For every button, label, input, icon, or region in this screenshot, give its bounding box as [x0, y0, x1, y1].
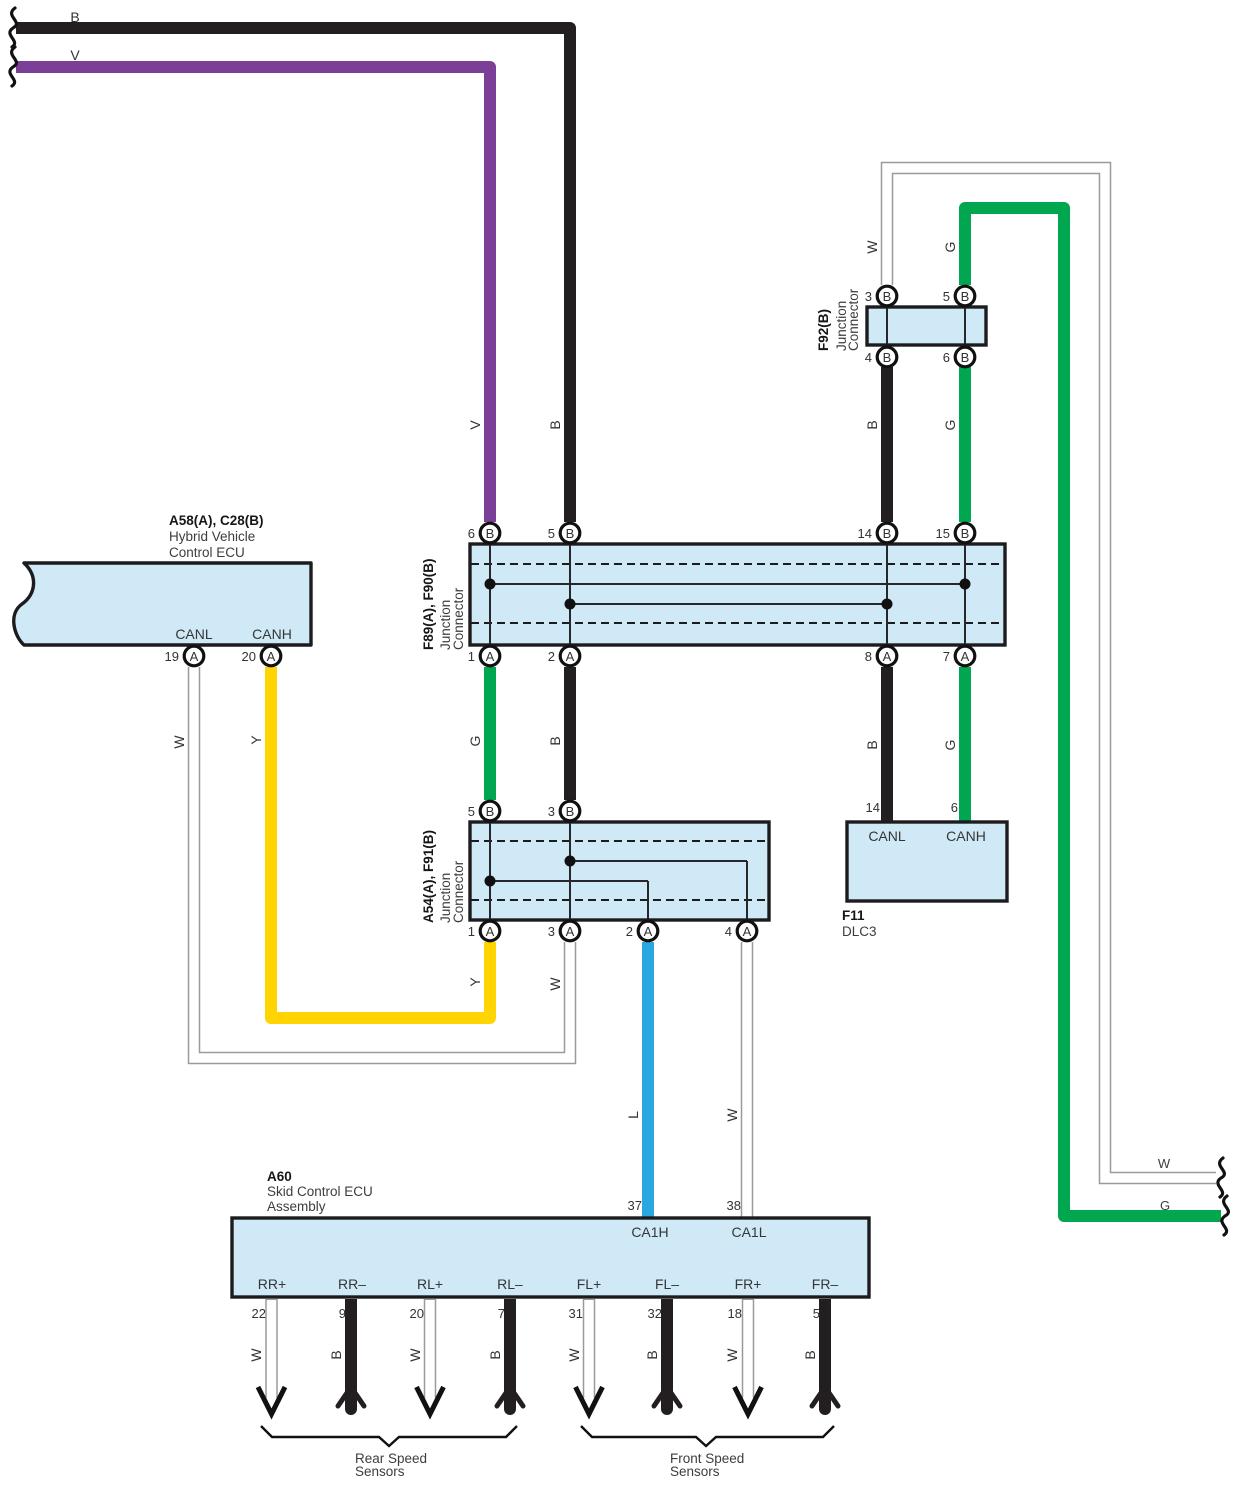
brace front speed sensors — [581, 1426, 834, 1446]
svg-text:5: 5 — [468, 804, 475, 819]
wire G F92.6B to F89.15B — [959, 367, 971, 522]
svg-text:4: 4 — [725, 924, 732, 939]
svg-text:Hybrid Vehicle: Hybrid Vehicle — [169, 529, 255, 544]
break squiggle V wire — [10, 47, 17, 86]
pin 8A F89 — [865, 646, 897, 666]
svg-text:FR+: FR+ — [735, 1276, 762, 1292]
svg-text:B: B — [961, 350, 970, 365]
wire W A58.19 to A54.3A — [194, 666, 570, 1058]
svg-text:7: 7 — [943, 649, 950, 664]
svg-text:A58(A), C28(B): A58(A), C28(B) — [169, 513, 264, 528]
break squiggle B wire — [10, 8, 17, 47]
svg-text:15: 15 — [936, 526, 950, 541]
svg-text:B: B — [70, 9, 79, 25]
svg-text:20: 20 — [410, 1306, 424, 1321]
svg-text:A: A — [566, 649, 575, 664]
svg-text:FL–: FL– — [655, 1276, 679, 1292]
svg-text:Assembly: Assembly — [267, 1199, 326, 1214]
svg-text:6: 6 — [943, 350, 950, 365]
break squiggle G right — [1222, 1196, 1229, 1235]
svg-text:RR–: RR– — [338, 1276, 366, 1292]
svg-text:1: 1 — [468, 924, 475, 939]
svg-text:B: B — [644, 1350, 660, 1359]
svg-text:37: 37 — [628, 1198, 642, 1213]
A54 label — [421, 830, 466, 923]
svg-text:CANH: CANH — [946, 828, 986, 844]
svg-text:A: A — [743, 924, 752, 939]
wire G F89.7A to F11 CANH — [959, 667, 971, 822]
svg-text:A: A — [961, 649, 970, 664]
pin 5B F89 — [548, 523, 580, 543]
pin 3A A54 — [548, 921, 580, 941]
svg-text:RL+: RL+ — [417, 1276, 443, 1292]
connector A58 Hybrid Vehicle Control ECU — [14, 563, 311, 645]
label front speed sensors — [670, 1451, 744, 1479]
svg-text:A54(A), F91(B): A54(A), F91(B) — [421, 830, 436, 923]
svg-text:L: L — [625, 1111, 641, 1119]
svg-text:G: G — [1160, 1198, 1170, 1213]
svg-text:B: B — [883, 289, 892, 304]
sensor wire B pin 32 — [644, 1299, 680, 1415]
svg-text:6: 6 — [951, 800, 958, 815]
svg-text:W: W — [566, 1348, 582, 1362]
svg-text:14: 14 — [858, 526, 872, 541]
svg-text:5: 5 — [813, 1306, 820, 1321]
svg-text:CA1H: CA1H — [631, 1224, 668, 1240]
svg-text:A: A — [566, 924, 575, 939]
wire W from F92.3B around right side — [887, 168, 1217, 1178]
pin 4A A54 — [725, 921, 757, 941]
sensor wire B pin 7 — [487, 1299, 523, 1415]
svg-text:2: 2 — [626, 924, 633, 939]
label rear speed sensors — [355, 1451, 427, 1479]
svg-text:B: B — [864, 740, 880, 749]
F89 label — [421, 558, 466, 650]
svg-text:3: 3 — [548, 804, 555, 819]
pin 1A A54 — [468, 921, 500, 941]
svg-text:B: B — [864, 420, 880, 429]
svg-text:Y: Y — [467, 977, 483, 987]
connector F11 DLC3 — [847, 822, 1007, 901]
svg-text:W: W — [1158, 1156, 1171, 1171]
pin 5B A54 — [468, 801, 500, 821]
pin 1A F89 — [468, 646, 500, 666]
svg-text:V: V — [467, 420, 483, 430]
pin 4B F92 — [865, 347, 897, 367]
F92 label — [816, 288, 861, 351]
svg-text:B: B — [961, 289, 970, 304]
svg-text:Connector: Connector — [846, 288, 861, 351]
svg-text:A: A — [267, 649, 276, 664]
A60 title — [267, 1169, 373, 1214]
svg-text:4: 4 — [865, 350, 872, 365]
svg-text:W: W — [248, 1348, 264, 1362]
svg-text:CANH: CANH — [252, 626, 292, 642]
svg-text:2: 2 — [548, 649, 555, 664]
svg-text:G: G — [942, 740, 958, 751]
svg-text:A: A — [486, 649, 495, 664]
pin 6B F92 — [943, 347, 975, 367]
pin 3B A54 — [548, 801, 580, 821]
svg-text:A: A — [644, 924, 653, 939]
svg-text:22: 22 — [252, 1306, 266, 1321]
wire L A54.2A to A60 CA1H — [642, 942, 654, 1218]
svg-text:W: W — [724, 1348, 740, 1362]
svg-text:Connector: Connector — [451, 860, 466, 923]
sensor wire W pin 22 — [248, 1299, 285, 1414]
svg-text:RR+: RR+ — [258, 1276, 286, 1292]
connector A60 Skid Control ECU Assembly — [232, 1218, 869, 1297]
wire B F89.8A to F11 CANL — [881, 667, 893, 822]
pin 7A F89 — [943, 646, 975, 666]
svg-text:B: B — [486, 526, 495, 541]
svg-text:W: W — [724, 1108, 740, 1122]
svg-text:CANL: CANL — [868, 828, 906, 844]
svg-text:B: B — [547, 736, 563, 745]
svg-text:7: 7 — [498, 1306, 505, 1321]
svg-text:DLC3: DLC3 — [842, 924, 877, 939]
svg-text:F11: F11 — [842, 908, 865, 923]
svg-text:FR–: FR– — [812, 1276, 839, 1292]
sensor wire B pin 5 — [802, 1299, 838, 1415]
wire B F92.4B to F89.14B — [881, 367, 893, 522]
svg-text:B: B — [883, 526, 892, 541]
pin 15B F89 — [936, 523, 975, 543]
svg-text:W: W — [171, 735, 187, 749]
svg-text:A: A — [486, 924, 495, 939]
svg-text:G: G — [942, 420, 958, 431]
svg-text:A60: A60 — [267, 1169, 292, 1184]
svg-text:Skid Control ECU: Skid Control ECU — [267, 1184, 373, 1199]
svg-text:F92(B): F92(B) — [816, 309, 831, 351]
svg-text:8: 8 — [865, 649, 872, 664]
svg-text:20: 20 — [242, 649, 256, 664]
svg-text:B: B — [328, 1350, 344, 1359]
svg-text:CA1L: CA1L — [731, 1224, 766, 1240]
svg-text:F89(A), F90(B): F89(A), F90(B) — [421, 558, 436, 650]
svg-text:Sensors: Sensors — [670, 1464, 720, 1479]
svg-text:G: G — [942, 242, 958, 253]
sensor wire B pin 9 — [328, 1299, 364, 1415]
svg-text:FL+: FL+ — [577, 1276, 602, 1292]
svg-text:Y: Y — [248, 735, 264, 745]
svg-text:A: A — [190, 649, 199, 664]
svg-text:CANL: CANL — [175, 626, 213, 642]
sensor wire W pin 20 — [407, 1299, 444, 1414]
svg-text:Connector: Connector — [451, 587, 466, 650]
svg-text:38: 38 — [727, 1198, 741, 1213]
pin 6B F89 — [468, 523, 500, 543]
svg-text:B: B — [802, 1350, 818, 1359]
svg-text:5: 5 — [943, 289, 950, 304]
brace rear speed sensors — [261, 1426, 517, 1446]
wire B top (black) — [16, 28, 570, 522]
F11 title — [842, 908, 877, 939]
svg-text:B: B — [566, 804, 575, 819]
connector A54(A) F91(B) junction connector — [470, 822, 769, 920]
pin 5B F92 — [943, 286, 975, 306]
connector F92(B) junction connector — [867, 307, 986, 345]
svg-text:5: 5 — [548, 526, 555, 541]
svg-text:3: 3 — [548, 924, 555, 939]
svg-text:W: W — [864, 240, 880, 254]
svg-text:W: W — [407, 1348, 423, 1362]
svg-text:1: 1 — [468, 649, 475, 664]
pin 2A A54 — [626, 921, 658, 941]
wire G from F92.5B around right side — [965, 208, 1221, 1216]
wire G F89.1A to A54.5B — [484, 667, 496, 800]
pin 14B F89 — [858, 523, 897, 543]
sensor wire W pin 18 — [724, 1299, 762, 1414]
pin 3B F92 — [865, 286, 897, 306]
svg-text:B: B — [883, 350, 892, 365]
svg-text:V: V — [70, 47, 80, 63]
A58 title — [169, 513, 264, 560]
svg-text:RL–: RL– — [497, 1276, 523, 1292]
wire W A54.4A to A60 CA1L — [741, 941, 754, 1218]
wire V (violet) — [16, 67, 490, 522]
svg-text:B: B — [547, 420, 563, 429]
svg-text:32: 32 — [648, 1306, 662, 1321]
svg-text:3: 3 — [865, 289, 872, 304]
break squiggle W right — [1218, 1158, 1225, 1197]
svg-text:31: 31 — [569, 1306, 583, 1321]
sensor wire W pin 31 — [566, 1299, 603, 1414]
svg-text:B: B — [487, 1350, 503, 1359]
svg-text:Sensors: Sensors — [355, 1464, 405, 1479]
svg-text:G: G — [467, 736, 483, 747]
pin 2A F89 — [548, 646, 580, 666]
svg-text:Control ECU: Control ECU — [169, 545, 245, 560]
svg-text:18: 18 — [728, 1306, 742, 1321]
svg-text:A: A — [883, 649, 892, 664]
svg-text:9: 9 — [339, 1306, 346, 1321]
svg-text:B: B — [961, 526, 970, 541]
svg-text:B: B — [486, 804, 495, 819]
svg-text:6: 6 — [468, 526, 475, 541]
pin 19A A58 — [165, 646, 204, 666]
wire Y A58.20 to A54.1A — [271, 667, 490, 1018]
svg-text:19: 19 — [165, 649, 179, 664]
pin 20A A58 — [242, 646, 281, 666]
svg-text:14: 14 — [866, 800, 880, 815]
svg-text:B: B — [566, 526, 575, 541]
connector F89(A) F90(B) junction connector — [470, 544, 1005, 645]
wire B F89.2A to A54.3B — [564, 667, 576, 800]
svg-text:W: W — [547, 977, 563, 991]
